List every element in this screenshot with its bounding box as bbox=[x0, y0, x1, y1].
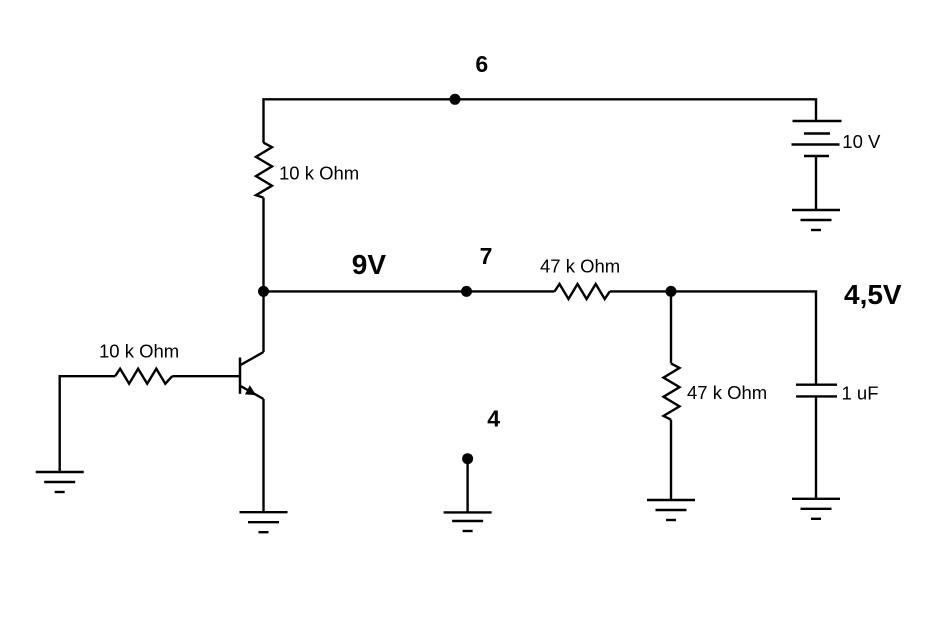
svg-text:7: 7 bbox=[480, 243, 493, 269]
svg-text:10 k Ohm: 10 k Ohm bbox=[279, 163, 359, 184]
svg-text:4,5V: 4,5V bbox=[844, 279, 902, 310]
svg-text:10 k Ohm: 10 k Ohm bbox=[99, 341, 179, 362]
svg-text:6: 6 bbox=[475, 51, 488, 77]
svg-text:10 V: 10 V bbox=[842, 131, 881, 152]
svg-text:9V: 9V bbox=[352, 249, 387, 280]
svg-text:4: 4 bbox=[487, 405, 500, 431]
svg-text:47 k Ohm: 47 k Ohm bbox=[687, 382, 767, 403]
svg-text:47 k Ohm: 47 k Ohm bbox=[540, 256, 620, 277]
svg-text:1 uF: 1 uF bbox=[842, 383, 879, 404]
